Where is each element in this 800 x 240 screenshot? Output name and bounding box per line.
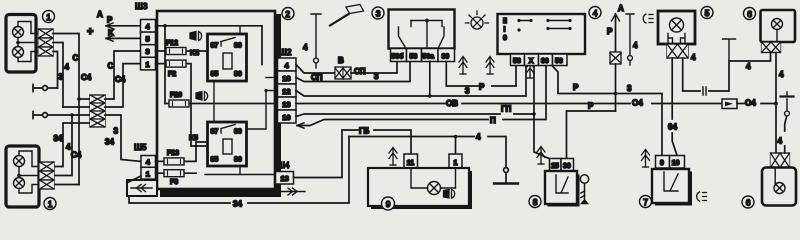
svg-text:8: 8 [533, 197, 538, 207]
svg-text:86: 86 [234, 157, 242, 164]
inline connector circle on ground line A [43, 86, 48, 91]
wire SP to switch 3 pin 56b [351, 62, 397, 74]
svg-text:ГП: ГП [501, 105, 512, 114]
switch 3 box [389, 10, 455, 49]
internal wiring of bottom-left headlamp [19, 151, 40, 193]
relay K4 85 to K5 87 link [213, 81, 215, 122]
svg-text:F2: F2 [168, 71, 176, 78]
switch 4 pin boxes 56,X,30,56 [511, 54, 568, 66]
rear lamp 6 bulb [774, 168, 785, 194]
switch 8 internal contact [556, 175, 568, 193]
fuse F2 body [166, 60, 186, 67]
svg-text:6: 6 [746, 197, 751, 207]
circled item number 1 (bottom) [44, 198, 56, 210]
svg-text:0: 0 [503, 35, 507, 42]
inline connector circle [785, 111, 790, 116]
svg-text:4: 4 [593, 8, 598, 18]
svg-text:4: 4 [633, 41, 638, 50]
lamp L2b circle-X [14, 178, 25, 189]
svg-text:X: X [529, 58, 534, 65]
junction dot wire Ch-bottom on line B [70, 113, 74, 117]
svg-text:3: 3 [376, 8, 381, 18]
svg-text:56: 56 [555, 58, 563, 65]
relay K4 box [208, 34, 247, 81]
rear lamp 6 bottom connector [771, 153, 790, 168]
svg-text:4: 4 [746, 62, 751, 71]
wire 3 mid connector right down to Sh5 pin4 [105, 115, 141, 161]
svg-text:30: 30 [234, 43, 242, 50]
left continuation arrow glyph [131, 187, 152, 189]
mid joining connector (4 mated cells) [90, 95, 105, 127]
fuse F20 body [169, 100, 189, 107]
svg-text:4: 4 [65, 63, 70, 72]
svg-text:F12: F12 [166, 40, 178, 47]
connector V (2 mated cells) [335, 67, 351, 79]
relay K5 box [208, 122, 247, 166]
switch 3 internal mechanism [399, 21, 445, 49]
svg-text:11: 11 [407, 160, 415, 167]
wire Ch bottom lamp [54, 115, 72, 176]
tail lamp column wire [775, 53, 777, 154]
wire 3 long from Sh2-12 to switch 4 pin X [296, 66, 526, 97]
switch 3 stalk icon [330, 5, 364, 26]
connector on feed A (hatched cell) [610, 52, 621, 64]
item 9 ground arrow [389, 148, 397, 166]
wire C4 bottom lamp pin3 [54, 184, 79, 186]
relay K5 contact 87-30 [221, 125, 235, 134]
svg-text:1: 1 [454, 160, 458, 167]
junction dot item9 ground [454, 135, 458, 139]
inner vertical bus x=165 [164, 26, 166, 104]
svg-text:9: 9 [386, 199, 391, 209]
inner feed wire from Sh3-4 across block [156, 26, 263, 65]
svg-text:II: II [503, 18, 507, 25]
wire P panel line with left arrow [297, 66, 546, 126]
connector Sh2 pin boxes 4,18,12,13,16 [278, 58, 297, 123]
fog lamp 5 connector [667, 44, 688, 58]
svg-text:B: B [338, 56, 344, 65]
svg-text:3: 3 [59, 73, 64, 82]
rear lamp 6 bottom body [762, 168, 796, 206]
svg-text:4: 4 [476, 133, 481, 142]
switch 8 body with shadow [548, 175, 580, 207]
low-beam icon above relay K5 [196, 92, 208, 101]
svg-text:K4: K4 [190, 50, 199, 57]
fuse F2 row wire [156, 64, 208, 146]
svg-text:30: 30 [541, 58, 549, 65]
svg-text:OB: OB [446, 99, 458, 108]
fuse F12 row wire [156, 50, 208, 52]
wire C4 mid connector right to Sh3 pin1 [105, 64, 141, 107]
fuse F13 body [164, 158, 184, 165]
svg-text:I: I [504, 27, 506, 34]
feed wire A with up arrow (right section) [615, 14, 617, 52]
junction dot on inner feed [163, 24, 167, 28]
junction dot switch 3 [425, 19, 429, 23]
ground line A (y=88) with tick [34, 87, 58, 89]
svg-text:C4: C4 [71, 151, 82, 160]
svg-text:A: A [618, 4, 624, 13]
rear lamp 6 ground wire up [785, 117, 787, 153]
svg-text:3: 3 [627, 84, 632, 93]
continuation arrow box on OCh wire [722, 99, 737, 109]
svg-text:34: 34 [233, 200, 242, 209]
svg-text:4: 4 [303, 43, 308, 52]
fuse F3 row wire [156, 172, 197, 174]
item 9 body with shadow [371, 171, 472, 209]
internal wiring of top-left headlamp [18, 22, 39, 62]
relay K5 86 to Sh4-13 inner wire [205, 166, 276, 175]
svg-text:87: 87 [211, 43, 219, 50]
dangling service wire with circle [626, 14, 634, 55]
svg-text:Ш4: Ш4 [277, 160, 290, 170]
ground arrow near switch 8 [537, 147, 545, 165]
Sh2-18 inner tap [266, 77, 276, 79]
svg-text:56б: 56б [391, 52, 404, 60]
wire 3 from Sh2-18 to switch 3 pin 56 [296, 62, 410, 82]
circled item number 7 [640, 196, 652, 208]
circled item number 9 [382, 197, 395, 210]
item 9 internal wiring [411, 169, 456, 188]
svg-text:O4: O4 [632, 99, 643, 108]
relay K4 contact 87-30 [221, 38, 235, 47]
marker lamp 6 top body [761, 10, 796, 42]
mounting block 2 outline [157, 11, 275, 189]
relay K4 pin 30 feed stub [239, 26, 241, 34]
wire Ch from headlamp1 pin2 [53, 43, 63, 108]
wire SP from Sh2-4 to connector V [296, 65, 335, 74]
svg-text:56: 56 [513, 58, 521, 65]
svg-text:2: 2 [285, 9, 290, 19]
svg-text:1: 1 [146, 60, 150, 69]
item 9 pin1 wire to ground line [455, 137, 457, 155]
svg-text:P: P [607, 27, 613, 36]
svg-text:F20: F20 [170, 92, 182, 99]
feed column down from connector [615, 64, 617, 111]
fuse F13 row wire [156, 142, 208, 161]
svg-text:1: 1 [48, 199, 53, 209]
svg-text:K: K [108, 29, 114, 38]
wire 3 from headlamp1 pin3 to ground line [53, 52, 58, 89]
junction dot column C at mid connector feed [77, 97, 81, 101]
svg-text:10: 10 [672, 160, 680, 167]
svg-text:86: 86 [234, 71, 242, 78]
item 9 indicator lamp [428, 182, 441, 195]
wire OCh long from Sh2-13 to arrow box [296, 103, 722, 105]
headlamp unit 1 (top-left) body [6, 15, 36, 73]
wire GB from Sh4-13 to item 9 pin 11 [294, 130, 412, 178]
wire into mid connector L1 [79, 98, 90, 100]
relay K5 30 to Sh2-12 link [247, 91, 277, 130]
svg-text:C4: C4 [81, 73, 92, 82]
fuse F20 row wire to Sh2-13 [165, 103, 276, 105]
svg-text:15: 15 [551, 163, 559, 170]
svg-text:1: 1 [146, 169, 150, 178]
wire Ch ground of item 9 [349, 137, 506, 168]
junction dot GP [532, 112, 536, 116]
inline connector circle on ground drop [504, 168, 509, 173]
ground bus 34 from notch box [129, 137, 349, 204]
headlamp unit 1 (bottom-left) body [6, 146, 39, 207]
svg-text:5: 5 [705, 8, 710, 18]
svg-text:56: 56 [410, 53, 418, 60]
lamp L1a circle-X [13, 27, 24, 38]
wire 3Ch to bottom headlamp pin1 [54, 123, 90, 167]
bulb icon left of switch 4 [466, 11, 489, 29]
svg-text:C: C [73, 54, 79, 63]
switch 7 internal contact [664, 172, 678, 191]
svg-text:3: 3 [465, 87, 470, 96]
svg-text:F13: F13 [167, 150, 179, 157]
ignition key icon [580, 175, 588, 204]
fog lamp 5 icon [643, 14, 653, 23]
inline break symbol on ground chain [703, 87, 706, 95]
svg-text:4: 4 [691, 53, 696, 62]
right continuation arrow glyph below Sh4 [281, 191, 305, 193]
ground arrow symbol 2 [486, 57, 494, 75]
marker lamp 6 top connector [762, 42, 781, 53]
circled item number 3 [372, 7, 384, 19]
fog lamp 5 holder [668, 34, 685, 45]
switch 4 contact rows [517, 19, 571, 32]
circled item number 5 [701, 7, 713, 19]
marker lamp 6 top bulb [772, 19, 783, 42]
mounting block 2 shadow bars [160, 189, 281, 197]
svg-text:16: 16 [282, 113, 290, 122]
svg-text:13: 13 [281, 174, 289, 183]
svg-text:18: 18 [282, 74, 290, 83]
switch 3 pin 56a wire down to long-3 wire [429, 62, 431, 97]
switch 7 body with shadow [655, 172, 692, 206]
circled item number 6 top [744, 8, 756, 20]
svg-text:13: 13 [282, 100, 290, 109]
ground line B (y=115) with tick [34, 114, 90, 116]
feed arrow P to Sh3-4 [106, 25, 141, 27]
svg-text:12: 12 [282, 87, 290, 96]
wire C from headlamp1 pin1 down long column [53, 34, 79, 185]
svg-text:4: 4 [778, 137, 783, 146]
switch 7 pin boxes 9,10 [656, 156, 685, 169]
svg-text:Ш5: Ш5 [134, 142, 147, 152]
switch 8 pin boxes 15,30 [550, 159, 574, 172]
fuse F12 body [166, 48, 186, 55]
fog lamp 5 body [658, 11, 695, 44]
svg-text:56a: 56a [422, 53, 434, 60]
ground arrow symbol left of switch 4 [459, 57, 467, 75]
wire GP vertical from switch 4 X down to switch 8 pin 15 [534, 66, 549, 159]
svg-text:1: 1 [46, 12, 51, 22]
item 9 high-beam icon [444, 190, 455, 199]
svg-text:5: 5 [146, 35, 150, 44]
svg-text:34: 34 [105, 138, 114, 147]
branch to switch 4 pin 30 [552, 66, 616, 94]
connector of headlamp 1 top (3 hatched cells) [39, 29, 54, 56]
wire GP from Sh2-16 to switch 8 pin 15 [296, 114, 534, 117]
svg-text:CП: CП [354, 67, 366, 76]
inline connector circle on ground line B [43, 113, 48, 118]
svg-text:3: 3 [146, 47, 150, 56]
lamp L1b circle-X [13, 47, 24, 58]
fog icon right of switch 7 [697, 192, 707, 201]
dangling service wire with circle (near block top right) [311, 14, 321, 58]
fuse F3 body [164, 170, 184, 177]
block notch box with left continuation arrow [127, 180, 157, 196]
svg-text:P: P [479, 83, 485, 92]
svg-text:P: P [573, 83, 579, 92]
svg-text:30: 30 [234, 129, 242, 136]
wire C mid connector right to Sh3 pin3 [105, 51, 141, 99]
circled item number 6 bottom [742, 196, 754, 208]
branch 3 to fog switch 7 pin 9 [616, 94, 663, 156]
circled item number 8 [529, 196, 541, 208]
branch P down-left to switch 8 pin 30 [567, 111, 616, 159]
switch 3 pin boxes 56b,56,56a,30 [391, 49, 455, 62]
svg-text:3: 3 [114, 127, 119, 136]
wire P from switch 3 pin30 to switch 4 pin 56 [446, 62, 516, 87]
relay K5 coil [223, 139, 232, 154]
svg-text:K5: K5 [189, 135, 198, 142]
item 9 pin boxes 11,1 [404, 154, 462, 169]
svg-text:+: + [87, 26, 93, 38]
circled item number 4 [589, 7, 601, 19]
svg-text:O4: O4 [745, 99, 756, 108]
wire OCh from fog lamp to switch 7 pin 10 [672, 58, 677, 156]
svg-text:Ш2: Ш2 [279, 47, 292, 57]
relay K4 coil [223, 53, 232, 69]
chassis ground symbol below [505, 173, 507, 184]
circled item number 2 [282, 8, 294, 20]
connector Sh5 pin boxes 4,1 [141, 156, 156, 180]
svg-text:30: 30 [563, 163, 571, 170]
svg-text:Ш3: Ш3 [135, 1, 148, 11]
svg-text:ГБ: ГБ [359, 127, 370, 136]
svg-text:4: 4 [779, 70, 784, 79]
ground arrow near switch 7 [642, 150, 650, 168]
svg-text:9: 9 [660, 160, 664, 167]
ground arrow symbol 3 [526, 63, 534, 79]
switch 4 box [498, 14, 586, 54]
lamp L2a circle-X [14, 156, 25, 167]
connector Sh4 pin box 13 [276, 172, 294, 185]
junction dot OCh to tail lamp column [774, 102, 778, 106]
svg-text:85: 85 [211, 71, 219, 78]
svg-text:P: P [588, 102, 594, 111]
svg-text:87: 87 [211, 129, 219, 136]
svg-text:П: П [490, 116, 496, 125]
wire from Sh5-1 diagonal to notch [129, 176, 142, 182]
circled item number 1 (top) [43, 11, 55, 23]
svg-text:F3: F3 [170, 179, 178, 186]
svg-text:30: 30 [442, 53, 450, 60]
svg-text:7: 7 [643, 197, 648, 207]
junction dot in headlamp 1 top [16, 41, 20, 45]
connector of headlamp 1 bottom (3 hatched cells) [40, 162, 55, 189]
svg-text:34: 34 [54, 134, 63, 143]
junction dot in headlamp 1 bottom [17, 174, 21, 178]
svg-text:85: 85 [211, 157, 219, 164]
svg-text:C4: C4 [115, 75, 126, 84]
svg-text:04: 04 [668, 123, 677, 132]
svg-text:A: A [97, 10, 103, 19]
fog lamp 5 bulb [670, 18, 684, 32]
connector Sh3 pin boxes 4,5,3,1 [141, 20, 156, 70]
feed arrow K to Sh3-5 [106, 37, 141, 39]
junction dot feed column [614, 92, 618, 96]
high-beam icon above relay K4 [190, 32, 202, 41]
small chassis ground top right [786, 99, 788, 111]
svg-text:6: 6 [747, 9, 752, 19]
wire Ch ground chain from fog lamp 5 [683, 53, 771, 92]
svg-text:P: P [107, 16, 113, 25]
svg-text:3: 3 [374, 72, 379, 81]
wire into mid connector L2 [63, 106, 90, 108]
OCh wire continues to right column [737, 103, 776, 105]
svg-text:C: C [108, 62, 114, 71]
